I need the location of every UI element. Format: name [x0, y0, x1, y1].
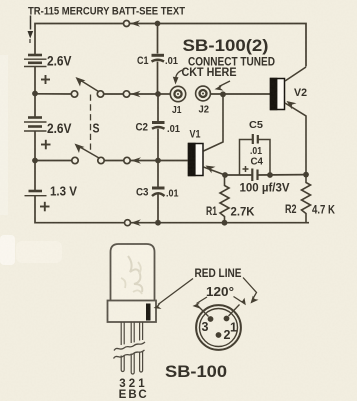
plus sign B2	[41, 140, 51, 150]
plus sign C4	[243, 166, 249, 172]
capacitor C5	[253, 134, 258, 144]
transistor can flange	[108, 301, 157, 323]
radial tick pin3	[198, 306, 209, 317]
wire row2 b-c	[104, 160, 124, 162]
wire: row2 to first contact	[35, 160, 73, 162]
pin 2 dot	[216, 332, 222, 338]
red line mark on can	[146, 304, 151, 321]
node V1 emitter	[222, 172, 228, 178]
wire: top rail from battery + to V2 collector drop	[35, 24, 306, 67]
plus sign B1	[41, 75, 50, 84]
node: top of capacitor rail	[155, 21, 161, 27]
battery B2 2.6V	[24, 118, 47, 132]
switch S row2 blade	[75, 144, 100, 159]
lead break squiggles	[114, 342, 146, 359]
connector circle on bottom wire	[125, 219, 141, 226]
node R1 bottom	[222, 220, 228, 226]
wire J2 to V2 base	[211, 93, 271, 95]
node rail bottom	[155, 220, 161, 226]
wire rail to J1	[158, 93, 171, 95]
red line leader left to can	[154, 279, 194, 310]
jack J2	[196, 86, 211, 101]
transistor V1	[188, 143, 203, 176]
straight arrow to J2 wire	[215, 81, 231, 91]
wire: B1 to row1 junction	[34, 67, 36, 118]
capacitor C4 100uf electrolytic	[252, 169, 257, 182]
node rail row1	[155, 91, 161, 97]
socket outline circles	[196, 305, 241, 350]
radial tick pin1	[229, 305, 240, 317]
can leads with break	[121, 322, 142, 374]
plus sign B3	[40, 202, 50, 212]
wire: row1 to first switch contact	[35, 93, 73, 95]
wire: B3 down and bottom rail	[35, 196, 309, 223]
switch S row1 blade	[76, 77, 99, 92]
switch S row1 contact c	[123, 91, 129, 97]
V2 collector wire	[285, 67, 306, 81]
wire: B2 to row2 junction	[34, 131, 36, 190]
resistor R1	[220, 175, 229, 223]
node row2 left	[32, 158, 38, 164]
transistor can body	[111, 244, 155, 301]
node R2 top	[303, 172, 309, 178]
switch S row2 contact a	[72, 157, 78, 163]
120 left leg arrow	[193, 297, 208, 309]
resistor R2	[302, 175, 311, 223]
wire row1 c to rail with plug arrow	[130, 91, 158, 98]
C5 branch loop	[240, 140, 271, 176]
red line leader right to socket	[243, 278, 259, 304]
capacitor rail: C1 segment	[152, 24, 165, 95]
pin 1 dot	[224, 316, 230, 322]
node rail row2	[155, 158, 161, 164]
V1 collector wire	[204, 94, 224, 151]
120 right leg arrow	[234, 297, 246, 306]
node C5 right	[267, 172, 273, 178]
curved arrow to J1	[173, 70, 185, 85]
switch S row2 contact c	[124, 157, 130, 163]
V1 base wire	[158, 160, 188, 162]
wire C4 right to R2 node	[258, 174, 307, 176]
battery B3 1.3V	[25, 191, 47, 196]
switch S row2 contact b	[98, 157, 104, 163]
capacitor rail: C3 segment	[152, 161, 165, 223]
V1 emitter wire with arrow	[204, 166, 226, 176]
node row1 left	[32, 91, 38, 97]
pin 3 dot	[208, 316, 214, 322]
wire row1 b-c	[104, 93, 124, 95]
battery B1 2.6V	[24, 55, 47, 67]
wire row2 c to rail with plug arrow	[130, 157, 158, 164]
switch gang dashed line S	[90, 95, 92, 152]
capacitor rail: C2 segment	[152, 94, 165, 161]
wire emitter node to C4	[225, 174, 252, 176]
node V1 collector junction	[220, 91, 226, 97]
paper grain overlay	[0, 0, 1, 1]
switch S row1 contact b	[97, 91, 103, 97]
V2 emitter wire with arrow	[285, 101, 306, 175]
switch S row1 contact a	[71, 91, 77, 97]
label TR-115 MERCURY BATT - SEE TEXT	[28, 6, 185, 18]
transistor V2	[270, 78, 285, 110]
leader arrow from label to battery	[28, 16, 34, 44]
connector circle on top wire	[124, 20, 141, 27]
jack J1	[170, 86, 185, 101]
